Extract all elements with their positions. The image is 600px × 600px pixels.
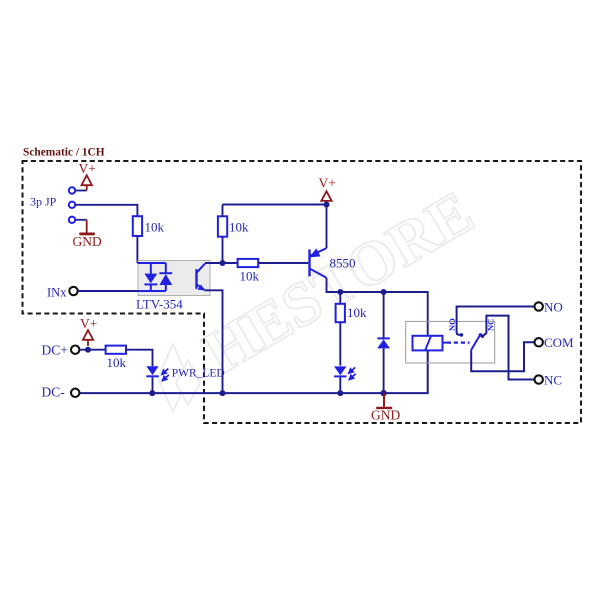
power V+ symbol (collector stage) <box>321 191 331 204</box>
wire Q1 collector to relay coil (top rail) <box>327 278 428 336</box>
ground label GND (JP) <box>73 234 102 249</box>
node collector/D1 junction <box>381 289 387 295</box>
wire Q1 emitter to V+ node <box>326 205 328 249</box>
svg-text:V+: V+ <box>79 161 96 176</box>
wire R5 to PWR LED <box>126 350 153 367</box>
wire R4 to LED D2 <box>339 322 341 365</box>
node D2 / rail <box>337 390 343 396</box>
svg-text:LTV-354: LTV-354 <box>136 297 183 312</box>
wire INx to opto cathode <box>78 290 138 292</box>
wire COM terminal to armature <box>471 342 534 371</box>
terminal DC+ <box>42 343 80 358</box>
ground GND symbol (main) <box>376 393 392 408</box>
svg-text:8550: 8550 <box>330 256 356 271</box>
svg-text:COM: COM <box>544 335 574 350</box>
node D1-GND / rail <box>380 390 386 396</box>
wire R4 top <box>339 292 341 304</box>
led D2 status <box>334 366 356 379</box>
wire PWR LED to ground rail <box>152 377 154 393</box>
svg-text:HESTORE: HESTORE <box>193 178 485 387</box>
relay K1 coil <box>413 336 447 351</box>
power label V+ (DC+) <box>80 316 97 331</box>
connector JP1 "3p JP" (3 pins) <box>30 187 75 223</box>
relay contact label NO (rotated) <box>447 318 457 331</box>
title Schematic / 1CH <box>23 147 105 159</box>
power V+ symbol (DC+ input) <box>83 330 93 346</box>
transistor Q1 8550 (PNP) <box>310 248 356 278</box>
optocoupler U1 LTV-354 <box>136 261 210 312</box>
svg-text:10k: 10k <box>229 220 249 235</box>
node opto emitter / rail <box>220 390 226 396</box>
wire opto emitter to ground rail <box>205 290 223 393</box>
svg-text:Schematic / 1CH: Schematic / 1CH <box>23 147 105 159</box>
svg-text:V+: V+ <box>319 176 336 191</box>
terminal NC <box>535 372 563 387</box>
ground label GND (main) <box>371 407 400 422</box>
terminal DC- <box>42 385 80 400</box>
svg-text:3p JP: 3p JP <box>30 195 57 209</box>
relay armature (common pole) <box>471 333 482 350</box>
wire JP pin2 to resistor R1 <box>76 205 138 216</box>
wire R2 top to V+ rail <box>222 205 224 217</box>
wire NC terminal to NC contact <box>481 316 534 380</box>
wire R3 to Q1 base <box>258 262 308 264</box>
node V+/DC+ junction <box>85 347 91 353</box>
power label V+ (JP) <box>79 161 96 176</box>
node V+ / emitter junction <box>324 202 330 208</box>
wire R1 to optocoupler anode <box>136 236 138 263</box>
svg-text:DC-: DC- <box>42 385 66 400</box>
svg-text:PWR_LED: PWR_LED <box>172 367 225 379</box>
ground rail (DC- net) <box>80 350 428 393</box>
relay K1 body <box>406 321 495 363</box>
power V+ symbol at JP pin 1 <box>75 175 92 190</box>
ground GND at JP pin 3 <box>75 220 94 234</box>
wire NO terminal to NO contact <box>457 307 534 337</box>
terminal NO <box>535 299 563 314</box>
svg-text:NO: NO <box>544 299 563 314</box>
wire opto collector to R3 (base net) <box>205 262 238 264</box>
svg-text:10k: 10k <box>240 269 260 284</box>
svg-text:DC+: DC+ <box>42 343 68 358</box>
relay contact label NC (rotated) <box>486 319 496 331</box>
resistor R2 10k (pull-up) <box>218 216 249 236</box>
node base net junction <box>220 260 226 266</box>
svg-text:NC: NC <box>544 372 562 387</box>
wire DC+ to R5 <box>80 349 106 351</box>
resistor R4 10k (LED series) <box>336 304 367 322</box>
resistor R1 10k <box>133 216 165 236</box>
wire V+ rail to R2 and Q1 emitter (top) <box>223 204 327 206</box>
wire R2 bottom to base net <box>222 237 224 263</box>
svg-text:GND: GND <box>371 407 400 422</box>
wire D2 to ground rail <box>339 377 341 393</box>
resistor R3 10k (base series) <box>238 259 260 284</box>
terminal COM <box>535 335 575 350</box>
svg-text:V+: V+ <box>80 316 97 331</box>
svg-text:10k: 10k <box>107 355 127 370</box>
svg-text:GND: GND <box>73 234 102 249</box>
diode D1 flyback <box>377 292 390 393</box>
svg-text:10k: 10k <box>145 220 165 235</box>
node collector/R4 junction <box>337 289 343 295</box>
relay mechanical link (dashed) <box>447 342 470 344</box>
resistor R5 10k (PWR LED series) <box>106 346 127 370</box>
power label V+ (stage) <box>319 176 336 191</box>
svg-text:INx: INx <box>47 285 67 299</box>
led PWR_LED <box>146 366 224 380</box>
node PWR LED / rail <box>149 390 155 396</box>
terminal INx <box>47 285 78 299</box>
svg-text:10k: 10k <box>347 305 367 320</box>
